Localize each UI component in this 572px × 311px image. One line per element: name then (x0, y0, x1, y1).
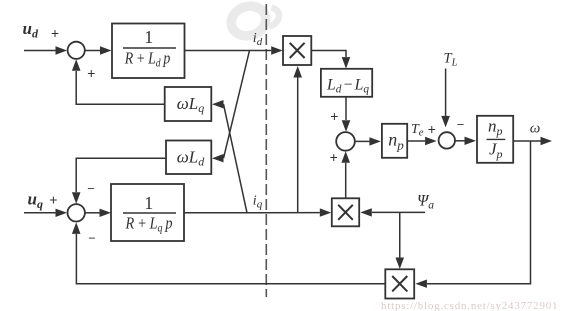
wire np to sum4 (407, 140, 425, 142)
summing junction S4 (TL sum) (439, 132, 455, 148)
arrow M3 out into sum2 bottom (72, 222, 81, 234)
svg-text:Ld − Lq: Ld − Lq (326, 76, 369, 95)
summing junction S3 (torque sum) (336, 132, 355, 151)
arrow wLq into sum1 bottom (72, 59, 81, 71)
svg-text:R + Ld p: R + Ld p (124, 48, 170, 69)
svg-text:1: 1 (144, 27, 153, 47)
multiplier M1 cross (290, 43, 305, 58)
arrow np into sum4 (425, 137, 437, 145)
multiplier M1 box (283, 36, 311, 65)
wire diagonal iq to wLq (224, 104, 248, 213)
svg-text:−: − (457, 117, 464, 132)
svg-text:+: + (49, 193, 57, 209)
arrow omega output tip (541, 137, 553, 145)
block npJp fraction bar (487, 138, 506, 140)
multiplier M2 box (332, 198, 359, 226)
svg-text:R + Lq p: R + Lq p (125, 213, 173, 234)
block wLq (165, 87, 212, 121)
wire uq input (24, 212, 56, 214)
arrow omega into M3 right (415, 280, 427, 288)
wire omega feedback down and left to M3 (427, 141, 531, 284)
arrow into wLq (212, 100, 224, 108)
arrow TL into sum4 top (441, 116, 450, 128)
arrow into sum1 (56, 46, 68, 54)
multiplier M3 box (385, 269, 414, 298)
block Gd fraction text (124, 27, 170, 70)
wire TL input (445, 69, 447, 116)
dashed separator line (265, 4, 267, 297)
svg-text:−: − (88, 230, 95, 245)
wire iq output (block Gq to multiplier M2) (185, 212, 320, 214)
svg-text:https://blog.csdn.net/sy243772: https://blog.csdn.net/sy243772901 (381, 300, 558, 311)
svg-text:−: − (87, 181, 94, 196)
wire sum1 to block Gd (85, 50, 100, 52)
svg-text:+: + (330, 151, 338, 167)
block Gd fraction bar (123, 47, 176, 49)
arrow psi-a into M3 top (395, 258, 404, 270)
wire LdLq to sum3 (345, 97, 347, 120)
arrow into multiplier M1 left (271, 46, 283, 54)
svg-text:+: + (87, 66, 95, 82)
wire omega output (513, 140, 540, 142)
block Gq fraction text (125, 193, 173, 235)
wire sum2 to block Gq (85, 212, 100, 214)
arrow into block Gd (100, 46, 112, 54)
block Gq fraction bar (123, 212, 176, 214)
wire sum3 to np (355, 140, 370, 142)
arrow iq into multiplier M2 left (320, 208, 332, 216)
wire psi-a down to M3 (399, 212, 401, 257)
arrow LdLq into sum3 top (342, 120, 351, 132)
wire wLd feedback to sum2 (76, 158, 166, 192)
svg-text:+: + (428, 123, 436, 139)
arrow sum3 into np (369, 137, 381, 145)
arrow iq into M1 bottom (293, 66, 302, 78)
watermark ring (CSDN logo, faint) (227, 2, 279, 40)
wire ud input (24, 50, 56, 52)
multiplier M2 cross (338, 205, 353, 220)
arrow wLd into sum2 top (72, 192, 81, 204)
block Gq 1/(R+Lq p) (111, 184, 184, 241)
svg-text:ω: ω (530, 121, 541, 137)
arrow M2 out into sum3 bottom (341, 151, 350, 163)
arrow into wLd (212, 154, 224, 162)
wire id output (block Gd to multiplier M1) (185, 50, 272, 52)
svg-text:+: + (330, 110, 338, 126)
arrow into block Gq (100, 209, 112, 217)
block LdLq (321, 69, 372, 97)
arrow sum4 into npJp (465, 137, 477, 145)
block wLd (166, 141, 211, 175)
block npJp fraction text (488, 116, 503, 161)
multiplier M3 cross (392, 276, 407, 291)
wire iq up to multiplier M1 (297, 78, 299, 213)
wire psi-a into M2 (372, 211, 425, 213)
wire wLq feedback to sum1 (76, 71, 165, 104)
wire diagonal id to wLd (224, 51, 250, 159)
wire sum4 to npJp (455, 140, 465, 142)
arrow into sum2 (56, 209, 68, 217)
wire M3 output to sum2 (76, 234, 385, 284)
block Gd 1/(R+Ld p) (112, 24, 185, 79)
arrow M1 out into LdLq top (342, 57, 351, 69)
wire M2 output up to sum3 (345, 163, 347, 199)
summing junction S2 (uq) (68, 204, 85, 221)
block npJp (477, 116, 513, 163)
wire M1 output to block LdLq (311, 51, 346, 58)
summing junction S1 (ud) (68, 42, 85, 59)
block np (382, 124, 407, 158)
arrow psi-a into M2 right (360, 208, 372, 216)
svg-text:1: 1 (144, 193, 153, 213)
svg-text:+: + (51, 26, 59, 42)
